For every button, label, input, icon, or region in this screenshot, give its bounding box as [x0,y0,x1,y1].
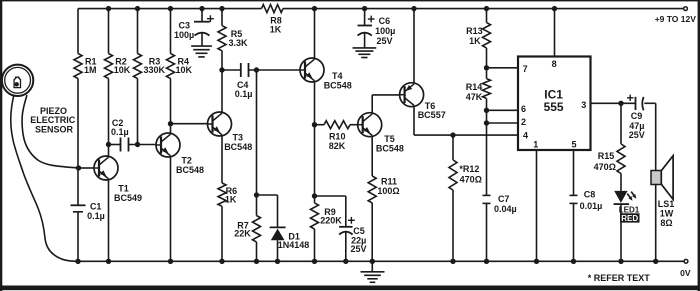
svg-text:*R12: *R12 [459,164,479,174]
svg-text:100µ: 100µ [174,30,194,40]
svg-text:22K: 22K [234,229,251,239]
svg-text:10K: 10K [114,65,131,75]
svg-text:1N4148: 1N4148 [278,240,310,250]
svg-text:3: 3 [581,100,586,110]
svg-text:T1: T1 [118,184,129,194]
svg-text:C8: C8 [584,190,596,200]
svg-text:25V: 25V [629,130,645,140]
svg-text:0.01µ: 0.01µ [580,201,603,211]
svg-text:C3: C3 [179,21,191,31]
svg-text:1K: 1K [225,195,237,205]
svg-text:R15: R15 [598,151,615,161]
svg-text:5: 5 [571,140,576,150]
svg-text:+9 TO 12V: +9 TO 12V [655,14,697,24]
svg-text:82K: 82K [329,141,346,151]
svg-text:3.3K: 3.3K [228,38,248,48]
svg-text:1: 1 [533,140,538,150]
svg-text:BC548: BC548 [224,142,252,152]
svg-text:2: 2 [521,117,526,127]
svg-text:R13: R13 [466,26,483,36]
svg-text:T2: T2 [181,156,192,166]
svg-text:LS1: LS1 [658,199,675,209]
svg-text:0.1µ: 0.1µ [87,211,105,221]
svg-text:RED: RED [621,214,638,223]
svg-text:470Ω: 470Ω [460,175,482,185]
svg-text:C1: C1 [90,202,102,212]
svg-text:T3: T3 [233,133,244,143]
svg-text:25V: 25V [350,244,366,254]
svg-text:T4: T4 [332,71,343,81]
svg-text:* REFER TEXT: * REFER TEXT [588,273,651,283]
svg-text:0.1µ: 0.1µ [111,127,129,137]
svg-text:BC549: BC549 [114,193,142,203]
svg-text:10K: 10K [175,65,192,75]
svg-text:SENSOR: SENSOR [35,125,74,135]
svg-text:1K: 1K [469,36,481,46]
svg-text:C7: C7 [498,194,510,204]
svg-text:25V: 25V [376,36,392,46]
svg-text:100Ω: 100Ω [377,186,399,196]
svg-text:1K: 1K [270,25,282,35]
svg-text:220K: 220K [320,215,342,225]
svg-text:470Ω: 470Ω [594,162,616,172]
svg-text:100µ: 100µ [375,26,395,36]
svg-text:C9: C9 [631,111,643,121]
svg-text:0V: 0V [680,268,691,278]
svg-text:555: 555 [544,100,564,114]
svg-text:0.1µ: 0.1µ [235,89,253,99]
svg-text:8: 8 [552,59,557,69]
svg-text:BC548: BC548 [176,165,204,175]
svg-text:1M: 1M [84,65,97,75]
svg-text:BC557: BC557 [418,110,446,120]
svg-text:8Ω: 8Ω [660,218,672,228]
svg-text:BC548: BC548 [376,143,404,153]
svg-text:330K: 330K [143,65,165,75]
svg-text:C6: C6 [379,16,391,26]
svg-text:4: 4 [523,130,528,140]
svg-text:R14: R14 [466,82,483,92]
svg-text:47K: 47K [466,92,483,102]
svg-text:7: 7 [523,64,528,74]
svg-text:6: 6 [521,104,526,114]
svg-text:BC548: BC548 [324,80,352,90]
svg-text:0.04µ: 0.04µ [494,204,517,214]
svg-text:R11: R11 [381,177,397,187]
